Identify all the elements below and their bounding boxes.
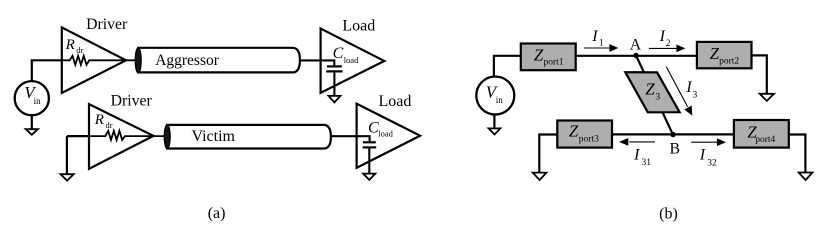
svg-text:port2: port2 [719,57,739,67]
svg-text:dr: dr [76,45,83,55]
svg-text:Load: Load [379,93,412,110]
svg-text:Aggressor: Aggressor [155,52,220,69]
svg-text:I: I [591,28,598,45]
svg-text:32: 32 [707,159,717,169]
svg-text:C: C [333,45,344,62]
svg-text:Z: Z [534,46,544,65]
svg-text:Z: Z [645,80,655,99]
svg-text:1: 1 [599,38,604,48]
svg-text:2: 2 [666,39,671,49]
svg-text:Driver: Driver [86,16,128,33]
svg-text:I: I [699,147,706,164]
svg-text:load: load [378,129,393,139]
svg-text:Driver: Driver [111,93,153,110]
svg-text:port4: port4 [755,135,775,145]
svg-text:I: I [685,79,692,96]
svg-text:R: R [65,37,75,53]
svg-text:Z: Z [710,44,720,63]
svg-text:3: 3 [693,90,698,100]
svg-text:Z: Z [569,122,579,141]
svg-text:in: in [34,96,42,106]
svg-text:I: I [659,28,666,45]
svg-text:dr: dr [106,120,113,130]
svg-text:3: 3 [655,93,660,103]
svg-text:(b): (b) [659,205,678,222]
svg-text:B: B [670,141,681,158]
svg-text:R: R [94,112,104,128]
svg-text:in: in [496,95,504,105]
svg-text:Victim: Victim [192,128,236,145]
svg-text:load: load [344,55,359,65]
svg-text:(a): (a) [208,205,226,222]
svg-text:A: A [630,37,642,54]
svg-text:port1: port1 [544,58,564,68]
svg-text:31: 31 [642,158,652,168]
svg-text:port3: port3 [579,134,599,144]
svg-text:I: I [633,146,640,163]
svg-text:Load: Load [342,17,375,34]
